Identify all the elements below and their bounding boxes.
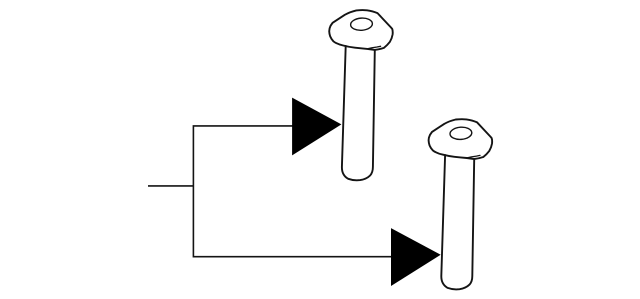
bolt 1 socket ellipse — [350, 17, 373, 31]
bolt 2 (lower flange bolt) — [429, 119, 493, 289]
wire: left stub — [148, 185, 193, 187]
bolt 2 head step line — [466, 155, 480, 158]
bolt 2 socket ellipse — [450, 126, 473, 140]
bolt 1 head step line — [367, 46, 381, 49]
bolt 2 shaft — [441, 155, 474, 289]
bolt 1 head outline — [329, 10, 393, 50]
arrow 2 (points to bolt 2) — [391, 228, 441, 286]
leader lines — [148, 126, 393, 257]
bolt 2 head outline — [429, 119, 493, 159]
bolt 1 shaft — [342, 46, 375, 180]
arrow 1 (points to bolt 1) — [292, 98, 341, 156]
bolt 1 (upper flange bolt) — [329, 10, 393, 180]
wire: bracket (top branch, vertical trunk, bottom branch) — [193, 126, 393, 257]
